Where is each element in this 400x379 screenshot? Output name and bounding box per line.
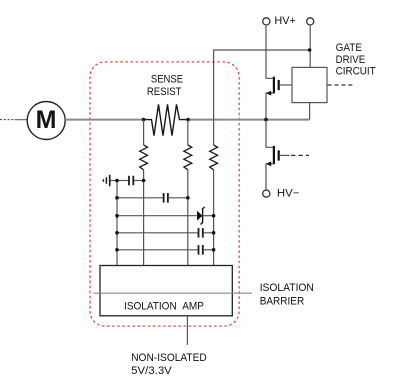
node row4 left [115, 231, 119, 235]
gate drive box [292, 67, 355, 119]
node row4 right [212, 231, 216, 235]
resistor R3 [210, 145, 218, 266]
node row1 right [142, 179, 146, 183]
label NON-ISOLATED 5V/3.3V [131, 352, 207, 377]
wire motor stub solid [15, 119, 28, 121]
capacitor C4 [117, 245, 214, 255]
svg-text:HV−: HV− [277, 188, 300, 200]
capacitor C3 [117, 228, 214, 238]
wire amp output [186, 316, 188, 345]
node sense right [186, 118, 190, 122]
capacitor C2 [117, 193, 188, 203]
terminal HV- [263, 188, 300, 200]
svg-text:RESIST: RESIST [147, 86, 182, 98]
svg-text:NON-ISOLATED: NON-ISOLATED [131, 352, 207, 364]
svg-text:ISOLATION: ISOLATION [260, 282, 314, 294]
node row5 right [212, 248, 216, 252]
node midpoint [264, 118, 268, 122]
terminal gate supply [307, 18, 314, 25]
wire gate supply drop [309, 25, 311, 67]
svg-text:SENSE: SENSE [151, 74, 183, 86]
transistor Q1 [266, 25, 292, 120]
isolation barrier line [93, 292, 252, 294]
resistor R1 [140, 120, 148, 266]
svg-text:BARRIER: BARRIER [260, 295, 305, 307]
ground [103, 175, 117, 186]
node sense left [142, 118, 146, 122]
motor M1 [27, 102, 65, 140]
label SENSE RESIST [147, 74, 183, 98]
label GATE DRIVE CIRCUIT [336, 42, 376, 77]
node gate supply [308, 48, 312, 52]
svg-text:CIRCUIT: CIRCUIT [336, 65, 376, 77]
terminal HV+ [263, 15, 296, 27]
motor lead dashed stub [0, 119, 14, 121]
svg-text:5V/3.3V: 5V/3.3V [131, 365, 172, 377]
isolation region red dashed boundary [90, 62, 239, 326]
node row1 left [115, 179, 119, 183]
node row2 right [186, 196, 190, 200]
resistor R2 [184, 120, 192, 266]
isolation amp U1 [100, 266, 232, 316]
svg-text:ISOLATION AMP: ISOLATION AMP [124, 300, 204, 312]
node row3 right [212, 214, 216, 218]
label ISOLATION BARRIER [260, 282, 314, 307]
node row2 left [115, 196, 119, 200]
svg-text:HV+: HV+ [274, 15, 295, 27]
svg-text:DRIVE: DRIVE [336, 54, 366, 66]
sense resistor [144, 104, 188, 135]
node row3 left [115, 214, 119, 218]
zener diode D1 [117, 207, 214, 225]
wire main phase line [65, 119, 309, 121]
transistor Q2 [266, 120, 309, 190]
wire HV top rail [214, 50, 310, 145]
wire left bus vertical [116, 181, 118, 266]
svg-text:GATE: GATE [336, 42, 362, 54]
svg-text:M: M [36, 106, 57, 134]
capacitor C1 [117, 176, 144, 186]
node row5 left [115, 248, 119, 252]
